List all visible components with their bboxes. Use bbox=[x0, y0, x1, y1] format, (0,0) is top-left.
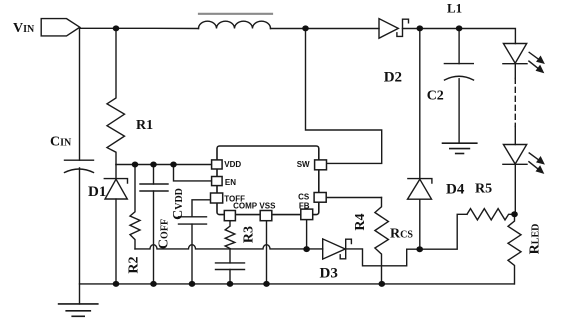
node FB junction bbox=[303, 246, 310, 252]
wire FB pin drop bbox=[306, 220, 308, 250]
wire VDD bus bbox=[116, 164, 212, 166]
svg-text:VIN: VIN bbox=[13, 21, 35, 36]
node D4 top bbox=[417, 25, 424, 31]
node R5 RLED junction bbox=[511, 211, 518, 217]
wire D2 cathode to LED string corner bbox=[403, 29, 516, 44]
LED2 arrows bbox=[529, 153, 540, 161]
node COMP-cap ground bbox=[227, 281, 234, 287]
resistor RLED bbox=[508, 214, 521, 284]
pin box VSS bbox=[260, 211, 272, 221]
svg-text:R1: R1 bbox=[136, 118, 153, 133]
inductor core bar bbox=[199, 13, 272, 15]
wire D3 cathode loop to D4 node and R5 riser bbox=[346, 214, 467, 265]
pin box SW bbox=[315, 160, 327, 170]
svg-text:EN: EN bbox=[225, 178, 236, 187]
wire VSS pin drop bbox=[266, 221, 268, 284]
node VIN input tag bbox=[41, 19, 80, 36]
wire EN pin bbox=[174, 165, 212, 181]
ground (bottom left) bbox=[59, 303, 98, 305]
pin box COMP bbox=[224, 211, 235, 221]
wire CS pin to RCS bbox=[326, 197, 381, 199]
svg-text:CIN: CIN bbox=[50, 135, 72, 150]
svg-text:COFF: COFF bbox=[157, 219, 172, 249]
svg-text:D2: D2 bbox=[384, 70, 402, 86]
svg-text:VDD: VDD bbox=[224, 160, 241, 169]
capacitor C2 bbox=[458, 29, 460, 64]
LED1 arrows bbox=[529, 52, 540, 60]
pin box VDD bbox=[211, 160, 327, 221]
resistor R5 bbox=[467, 209, 515, 220]
wire CIN to ground bbox=[79, 168, 81, 304]
wire SW pin from inductor output node bbox=[306, 29, 382, 164]
node COFF on VDD bus bbox=[150, 162, 157, 168]
wire left VIN rail down to CIN bbox=[79, 28, 81, 160]
node R1 top bbox=[113, 25, 120, 31]
node COFF ground bbox=[150, 281, 157, 287]
svg-text:D3: D3 bbox=[320, 265, 338, 281]
diode D2 (schottky) bbox=[379, 19, 398, 39]
svg-text:RCS: RCS bbox=[390, 227, 413, 242]
LED D-led1 bbox=[503, 44, 526, 64]
svg-text:R2: R2 bbox=[127, 256, 142, 273]
svg-text:VSS: VSS bbox=[259, 202, 276, 211]
wire LED string solid + dashed bbox=[514, 64, 516, 79]
node RCS ground bbox=[379, 281, 386, 287]
pin box TOFF bbox=[211, 193, 223, 203]
diode D1 (zener, cathode up) bbox=[115, 165, 117, 179]
svg-text:R5: R5 bbox=[475, 182, 492, 197]
pin box FB bbox=[301, 209, 313, 220]
wire LED2 to R5 node bbox=[514, 164, 516, 214]
svg-text:R3: R3 bbox=[242, 226, 257, 243]
op IC U1 body bbox=[217, 146, 319, 215]
svg-text:COMP: COMP bbox=[233, 202, 258, 211]
capacitor COFF bbox=[153, 165, 155, 185]
LED D-led2 bbox=[503, 145, 526, 165]
capacitor CIN bbox=[65, 159, 94, 161]
wire ground bus bbox=[80, 283, 515, 285]
resistor RCS / R4 bbox=[375, 198, 389, 284]
wire feedback bus with hops bbox=[135, 245, 323, 249]
svg-text:L1: L1 bbox=[447, 1, 462, 16]
node SW branch bbox=[302, 25, 309, 31]
svg-text:FB: FB bbox=[299, 202, 310, 211]
inductor L1 bbox=[199, 21, 271, 28]
resistor R2 bbox=[130, 165, 140, 249]
resistor R3 bbox=[225, 221, 235, 249]
svg-text:CS: CS bbox=[298, 193, 310, 202]
wire inductor to D2 anode bbox=[271, 28, 380, 30]
svg-text:CVDD: CVDD bbox=[171, 188, 186, 220]
wire top rail from VIN tag to inductor bbox=[80, 27, 199, 29]
node D4 bottom bbox=[416, 246, 423, 252]
node CVDD ground bbox=[189, 281, 196, 287]
svg-text:D1: D1 bbox=[88, 184, 106, 200]
resistor R1 bbox=[107, 29, 125, 165]
svg-text:C2: C2 bbox=[427, 89, 444, 104]
diode D3 (schottky) bbox=[323, 239, 346, 259]
wire TOFF pin to CVDD bbox=[192, 200, 211, 217]
svg-text:D4: D4 bbox=[446, 182, 465, 198]
capacitor CVDD bbox=[179, 216, 207, 218]
node D1 ground bbox=[113, 281, 120, 287]
pin box CS bbox=[314, 193, 326, 203]
node EN on VDD bus bbox=[170, 162, 177, 168]
ground (C2) bbox=[443, 142, 477, 144]
svg-text:SW: SW bbox=[297, 160, 310, 169]
capacitor (COMP) bbox=[229, 249, 231, 263]
pin box EN bbox=[212, 177, 223, 186]
node VSS ground bbox=[263, 281, 270, 287]
svg-text:R4: R4 bbox=[353, 213, 368, 230]
node C2 top bbox=[456, 25, 463, 31]
node R2 on VDD bus bbox=[132, 162, 139, 168]
svg-text:RLED: RLED bbox=[528, 224, 543, 255]
diode D4 (cathode up) bbox=[419, 29, 421, 179]
